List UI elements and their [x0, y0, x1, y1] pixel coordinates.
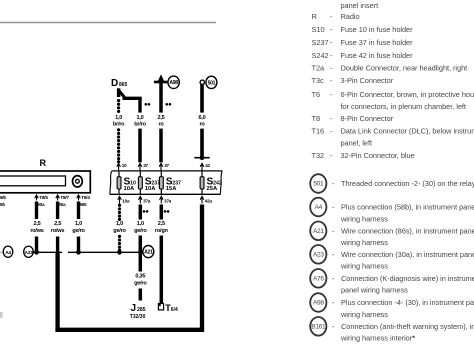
svg-text:0,35: 0,35 — [135, 274, 145, 280]
svg-text:Radio: Radio — [341, 12, 360, 21]
svg-text:10a: 10a — [122, 199, 130, 204]
svg-text:865: 865 — [79, 202, 87, 207]
svg-text:15A: 15A — [166, 186, 177, 192]
svg-text:1,0: 1,0 — [137, 221, 144, 227]
svg-text:37a: 37a — [143, 199, 151, 204]
svg-text:wiring harness: wiring harness — [340, 262, 388, 271]
svg-text:S10: S10 — [312, 25, 325, 34]
svg-text:2,5: 2,5 — [157, 115, 164, 121]
svg-text:ro/ws: ro/ws — [51, 228, 64, 234]
svg-text:T32: T32 — [312, 151, 325, 160]
svg-text:32-Pin Connector, blue: 32-Pin Connector, blue — [341, 151, 415, 160]
svg-text:wiring harness: wiring harness — [340, 310, 388, 319]
svg-text:Fuse 10 in fuse holder: Fuse 10 in fuse holder — [341, 25, 414, 34]
svg-text:25A: 25A — [207, 186, 218, 192]
svg-text:T6: T6 — [312, 90, 321, 99]
svg-text:ro: ro — [199, 122, 205, 128]
svg-text:8/6: 8/6 — [0, 195, 6, 200]
svg-text:1,0: 1,0 — [75, 221, 82, 227]
svg-text:37a: 37a — [164, 199, 172, 204]
svg-text:2,5: 2,5 — [54, 221, 61, 227]
svg-text:R: R — [39, 158, 46, 168]
svg-text:ge/ro: ge/ro — [134, 228, 147, 234]
svg-text:br/ro: br/ro — [113, 122, 125, 128]
svg-text:42a: 42a — [205, 199, 213, 204]
svg-text:2,5: 2,5 — [158, 221, 165, 227]
svg-text:B161: B161 — [311, 323, 326, 330]
svg-text:42: 42 — [205, 163, 210, 168]
svg-text:8b: 8b — [0, 202, 5, 207]
svg-text:865: 865 — [119, 82, 128, 88]
svg-text:1,0: 1,0 — [116, 221, 123, 227]
svg-text:Double Connector, near headlig: Double Connector, near headlight, right — [341, 64, 468, 73]
svg-text:10A: 10A — [124, 186, 135, 192]
svg-text:panel wiring harness: panel wiring harness — [341, 286, 408, 295]
svg-text:501: 501 — [208, 80, 216, 86]
svg-text:-: - — [330, 76, 333, 85]
svg-text:-: - — [330, 12, 333, 21]
svg-text:A23: A23 — [25, 250, 34, 256]
svg-text:10: 10 — [122, 163, 127, 168]
svg-text:T8/5: T8/5 — [39, 195, 48, 200]
svg-text:ge/ro: ge/ro — [113, 228, 126, 234]
svg-text:Fuse 37 in fuse holder: Fuse 37 in fuse holder — [341, 38, 414, 47]
svg-text:-: - — [332, 274, 335, 283]
svg-text:panel insert: panel insert — [341, 1, 379, 10]
svg-text:-: - — [330, 51, 333, 60]
svg-text:-: - — [332, 179, 335, 188]
svg-text:ro/gn: ro/gn — [155, 228, 169, 234]
svg-text:1,0: 1,0 — [136, 115, 143, 121]
svg-text:J: J — [131, 303, 137, 314]
svg-text:ro/ws: ro/ws — [30, 228, 43, 234]
svg-text:37: 37 — [143, 163, 148, 168]
svg-text:S237: S237 — [312, 38, 329, 47]
svg-text:6-Pin Connector, brown, in pro: 6-Pin Connector, brown, in protective ho… — [341, 90, 474, 99]
svg-text:-: - — [332, 226, 335, 235]
svg-text:wiring harness: wiring harness — [340, 238, 388, 247]
svg-text:-: - — [332, 250, 335, 259]
svg-text:D: D — [111, 78, 118, 89]
svg-text:ge/ro: ge/ro — [72, 228, 85, 234]
svg-text:6,0: 6,0 — [198, 115, 205, 121]
svg-text:T16: T16 — [312, 127, 325, 136]
svg-text:T2a: T2a — [312, 64, 326, 73]
svg-text:285: 285 — [137, 307, 146, 313]
svg-text:-: - — [330, 64, 333, 73]
svg-text:Connection (anti-theft warning: Connection (anti-theft warning system), … — [341, 322, 474, 331]
svg-text:ro: ro — [158, 122, 164, 128]
svg-text:-: - — [332, 298, 335, 307]
svg-text:-: - — [330, 151, 333, 160]
svg-text:-: - — [330, 90, 333, 99]
svg-text:-: - — [330, 127, 333, 136]
svg-text:A23: A23 — [313, 251, 324, 258]
svg-text:A76: A76 — [313, 275, 324, 282]
svg-text:10A: 10A — [145, 186, 156, 192]
svg-text:6/4: 6/4 — [171, 307, 178, 313]
svg-text:A98: A98 — [169, 80, 178, 86]
svg-text:br/ro: br/ro — [134, 122, 146, 128]
svg-text:-: - — [330, 38, 333, 47]
svg-text:-: - — [332, 203, 335, 212]
svg-text:wiring harness interior*: wiring harness interior* — [340, 334, 415, 343]
svg-text:A98: A98 — [313, 300, 324, 307]
svg-text:A4: A4 — [315, 204, 323, 211]
svg-text:1,0: 1,0 — [115, 115, 122, 121]
svg-text:30a: 30a — [58, 202, 66, 207]
svg-text:ge/ro: ge/ro — [134, 280, 147, 286]
svg-text:37: 37 — [164, 163, 169, 168]
svg-text:Threaded connection -2- (30) o: Threaded connection -2- (30) on the rela… — [341, 179, 474, 188]
svg-text:A21: A21 — [313, 228, 324, 235]
svg-text:Data Link Connector (DLC), bel: Data Link Connector (DLC), below instrum — [341, 127, 474, 136]
svg-text:R: R — [312, 12, 317, 21]
svg-text:T3c: T3c — [312, 76, 325, 85]
svg-text:A21: A21 — [144, 250, 153, 256]
svg-text:3-Pin Connector: 3-Pin Connector — [341, 76, 394, 85]
svg-text:2,5: 2,5 — [33, 221, 40, 227]
svg-text:8-Pin Connector: 8-Pin Connector — [341, 114, 394, 123]
svg-text:-: - — [330, 114, 333, 123]
svg-text:30a: 30a — [37, 202, 45, 207]
svg-text:Plus connection (58b), in inst: Plus connection (58b), in instrument pan… — [341, 203, 474, 212]
svg-text:Connection (K-diagnosis wire): Connection (K-diagnosis wire) in instrum… — [341, 274, 474, 283]
svg-text:for connectors, in plenum cham: for connectors, in plenum chamber, left — [341, 102, 466, 111]
svg-text:S242: S242 — [312, 51, 329, 60]
svg-text:T8/4: T8/4 — [81, 195, 90, 200]
svg-text:Wire connection (30a), in inst: Wire connection (30a), in instrument pan… — [341, 250, 474, 259]
svg-text:Plus connection -4- (30), in i: Plus connection -4- (30), in instrument … — [341, 298, 474, 307]
svg-text:Wire connection (86s), in inst: Wire connection (86s), in instrument pan… — [341, 226, 474, 235]
svg-text:T8: T8 — [312, 114, 321, 123]
svg-text:panel, left: panel, left — [341, 138, 373, 147]
svg-text:-: - — [330, 25, 333, 34]
svg-text:T8/7: T8/7 — [60, 195, 69, 200]
svg-text:-: - — [332, 322, 335, 331]
svg-text:T32/30: T32/30 — [130, 314, 146, 320]
svg-text:A4: A4 — [5, 250, 11, 256]
svg-text:501: 501 — [313, 181, 324, 188]
svg-text:wiring harness: wiring harness — [340, 214, 388, 223]
svg-text:Fuse 42 in fuse holder: Fuse 42 in fuse holder — [341, 51, 414, 60]
